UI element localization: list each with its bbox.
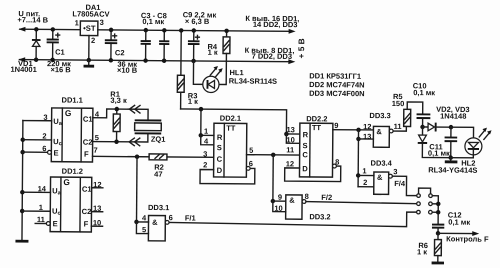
ground left bus — [15, 240, 28, 243]
label К выв. 8 DD1, 7 DD2, DD3 — [245, 46, 295, 61]
svg-text:10: 10 — [274, 204, 282, 213]
wire R4 to HL1 — [214, 53, 226, 84]
diode VD1 — [32, 27, 41, 62]
pin 6 DD1.1 — [23, 144, 52, 154]
resistor R1 — [113, 107, 120, 144]
ground under DA1 — [84, 60, 95, 66]
wire left bus — [20, 120, 25, 240]
svg-text:14 DD2, DD3: 14 DD2, DD3 — [253, 20, 298, 29]
pin 5 DD2.1 output — [247, 146, 300, 158]
svg-text:RL34-YG414S: RL34-YG414S — [428, 165, 477, 174]
ground under C11 — [445, 158, 458, 162]
wire DD2.2 Q down to DD3.4 — [356, 130, 361, 187]
label U пит. — [17, 9, 48, 24]
svg-text:6: 6 — [42, 144, 46, 153]
svg-text:+ 5 В: + 5 В — [296, 38, 306, 58]
svg-text:× 6,3 В: × 6,3 В — [185, 17, 210, 26]
svg-text:7: 7 — [93, 146, 97, 155]
svg-text:1: 1 — [204, 127, 208, 136]
svg-text:1: 1 — [75, 18, 79, 27]
svg-text:1N4148: 1N4148 — [440, 111, 466, 120]
pin 4 DD1.1 wire to R1 — [93, 109, 148, 121]
svg-text:11: 11 — [394, 122, 402, 131]
svg-text:S: S — [302, 141, 307, 150]
svg-text:10: 10 — [286, 135, 294, 144]
svg-text:6: 6 — [169, 213, 173, 222]
resistor R5 — [404, 102, 423, 127]
svg-text:DD2.2: DD2.2 — [306, 114, 327, 123]
svg-text:DD1.1: DD1.1 — [62, 96, 83, 105]
label R2 47 — [154, 163, 164, 179]
svg-text:D: D — [302, 164, 308, 173]
wire +5V rail — [98, 27, 296, 33]
svg-text:&: & — [377, 173, 383, 182]
svg-text:DD3 MC74F00N: DD3 MC74F00N — [309, 89, 365, 98]
label R6 1к — [417, 241, 428, 256]
pin 3 DD3.4 output F/4 — [392, 167, 417, 195]
flip-flop DD2.1 — [214, 123, 247, 177]
svg-text:F: F — [84, 150, 89, 159]
pin 3 DD1.1 — [23, 113, 52, 122]
node detector input — [420, 125, 425, 130]
svg-text:G: G — [63, 177, 70, 187]
svg-text:F: F — [84, 219, 89, 228]
chevron top — [129, 105, 140, 113]
svg-text:•ST: •ST — [83, 24, 96, 33]
chevron bottom — [129, 138, 140, 146]
svg-text:0,1 мк: 0,1 мк — [142, 17, 164, 26]
wire ground to HL1 — [193, 61, 207, 84]
pin 6 DD2.1 inverted output — [246, 159, 253, 170]
label C9 2,2мк — [183, 10, 217, 26]
svg-text:R: R — [303, 130, 309, 139]
label DA1 L7805ACV — [72, 3, 109, 19]
label R1 3,3к — [110, 90, 127, 105]
regulator DA1 — [80, 21, 98, 62]
capacitor C2 — [105, 28, 118, 63]
pin 11 DD3.3 output — [393, 122, 406, 131]
svg-text:5: 5 — [249, 146, 253, 155]
wire Контроль F output — [438, 231, 489, 244]
svg-text:3: 3 — [43, 113, 47, 122]
svg-text:RL34-SR114S: RL34-SR114S — [229, 76, 277, 85]
svg-text:8: 8 — [335, 158, 339, 167]
pin 4 DD3.1 — [137, 213, 149, 222]
wire pullup node — [180, 107, 286, 136]
svg-text:150: 150 — [392, 99, 405, 108]
pin 1 DD2.1 — [199, 127, 214, 138]
node C11 top — [449, 125, 454, 130]
gate DD3.4 — [374, 172, 393, 194]
svg-text:14: 14 — [38, 184, 47, 193]
svg-text:13: 13 — [93, 204, 101, 213]
resistor R4 — [223, 29, 230, 54]
switch SA1 contacts right — [429, 194, 433, 214]
svg-text:E: E — [53, 219, 58, 228]
svg-text:5: 5 — [142, 225, 146, 234]
label parts list DD1 DD2 DD3 — [309, 71, 365, 98]
svg-text:C2: C2 — [83, 138, 93, 147]
wire F to DD3.1 — [136, 157, 139, 222]
svg-text:DD3.3: DD3.3 — [369, 111, 390, 120]
svg-text:3: 3 — [393, 167, 397, 176]
svg-text:C1: C1 — [82, 185, 93, 194]
pin 8 DD2.2 inverted output — [333, 158, 340, 168]
svg-text:3: 3 — [203, 150, 207, 159]
label C3-C8 0,1мк — [141, 11, 167, 26]
svg-text:12: 12 — [363, 122, 371, 131]
label HL1 RL34-SR114S — [229, 68, 277, 86]
svg-text:×10 В: ×10 В — [117, 66, 138, 75]
capacitor C1 — [46, 27, 59, 62]
resistor R3 — [177, 28, 184, 109]
pin 1 DD1.2 — [22, 203, 50, 212]
svg-text:C2: C2 — [115, 48, 125, 57]
label К выв. 16 DD1, 14 DD2, DD3 — [245, 14, 299, 29]
resistor R6 — [434, 233, 441, 261]
pin 2 DD3.4 — [358, 178, 374, 187]
pin 10 DD3.2 — [273, 201, 286, 213]
pin 4 DD2.1 — [201, 135, 214, 145]
svg-text:12: 12 — [93, 180, 101, 189]
svg-text:2: 2 — [42, 132, 46, 141]
svg-text:10: 10 — [93, 218, 101, 227]
svg-text:ZQ1: ZQ1 — [151, 135, 166, 144]
svg-text:C1: C1 — [55, 48, 65, 57]
svg-text:1 к: 1 к — [417, 247, 427, 256]
svg-text:0,1 мк: 0,1 мк — [413, 88, 435, 97]
capacitor C3 — [140, 28, 150, 63]
svg-text:F/1: F/1 — [185, 213, 196, 222]
svg-text:5: 5 — [95, 133, 99, 142]
label VD2, VD3 1N4148 — [436, 105, 469, 121]
svg-text:TT: TT — [226, 124, 236, 133]
resistor R2 — [149, 154, 167, 160]
label C11 0,1мк — [428, 142, 450, 157]
svg-text:0,1 мк: 0,1 мк — [428, 149, 450, 158]
svg-text:F/2: F/2 — [321, 193, 332, 202]
pin 12 DD2.2 feedback loop — [285, 159, 341, 181]
multivibrator DD1.2 — [50, 177, 92, 232]
node контроль — [436, 231, 441, 236]
svg-text:C: C — [302, 150, 308, 159]
pin 12 DD1.2 — [92, 180, 103, 189]
svg-text:47: 47 — [154, 170, 162, 179]
wire ground rail — [18, 57, 295, 64]
svg-text:D: D — [217, 166, 223, 175]
svg-text:&: & — [289, 196, 295, 205]
capacitor C9 — [188, 28, 200, 63]
diode VD2 — [423, 123, 451, 132]
pin 6 DD3.1 output F/1 — [169, 210, 417, 227]
wire top input rail — [18, 27, 80, 32]
svg-text:G: G — [65, 108, 72, 118]
svg-text:13: 13 — [363, 132, 371, 141]
svg-text:1: 1 — [362, 166, 366, 175]
svg-text:7 DD2, DD3: 7 DD2, DD3 — [252, 52, 293, 61]
capacitor C10 — [416, 114, 430, 127]
svg-text:13: 13 — [286, 125, 294, 134]
switch SA1 bridge — [419, 188, 431, 194]
svg-text:DD3.1: DD3.1 — [148, 203, 169, 212]
pin 2 DD2.1 feedback loop — [200, 160, 255, 184]
svg-text:S: S — [217, 143, 222, 152]
svg-text:&: & — [152, 218, 158, 227]
node DD3.2 input — [271, 199, 276, 204]
diode VD3 — [418, 127, 451, 158]
flip-flop DD2.2 — [299, 123, 332, 177]
gate DD3.2 — [286, 195, 306, 219]
svg-text:6: 6 — [249, 159, 253, 168]
pin 13 DD3.3 — [358, 132, 373, 141]
svg-text:1 к: 1 к — [188, 97, 198, 106]
svg-text:8: 8 — [305, 192, 309, 201]
label R3 1к — [188, 91, 199, 106]
pin 13 DD2.2 — [284, 125, 300, 136]
svg-text:DD1.2: DD1.2 — [62, 167, 83, 176]
wire F node DD1.1 pin7 — [93, 146, 214, 160]
svg-text:2: 2 — [91, 36, 95, 45]
pin 9 DD3.2 — [273, 193, 286, 202]
label R4 1к — [207, 42, 218, 57]
capacitor C8 — [159, 28, 169, 63]
label C12 0,1мк — [448, 210, 471, 226]
svg-text:DD3.2: DD3.2 — [309, 212, 330, 221]
pin 14 DD1.2 — [22, 184, 50, 193]
pin 8 DD3.2 output F/2 — [305, 192, 417, 204]
svg-text:E: E — [54, 149, 59, 158]
pin 11 DD1.2 — [35, 215, 50, 226]
svg-text:DD2.1: DD2.1 — [220, 114, 241, 123]
pin 10 DD2.2 — [286, 134, 299, 145]
multivibrator DD1.1 — [51, 108, 93, 162]
svg-text:3: 3 — [100, 18, 104, 27]
svg-text:9: 9 — [278, 193, 282, 202]
label HL2 RL34-YG414S — [428, 158, 477, 174]
crystal ZQ1 — [135, 120, 162, 133]
wire DD2.1 Q to DD3.2 — [272, 155, 274, 201]
svg-text:12: 12 — [286, 159, 294, 168]
pin 13 DD1.2 — [91, 204, 102, 213]
svg-text:DD3.4: DD3.4 — [371, 159, 393, 168]
capacitor C12 — [432, 225, 444, 234]
pin 1 DD3.4 — [358, 166, 374, 175]
node detector ground — [448, 155, 453, 160]
svg-text:+7...14 В: +7...14 В — [17, 15, 48, 24]
svg-text:1: 1 — [39, 203, 43, 212]
label R5 150 — [392, 92, 405, 108]
svg-text:C1: C1 — [83, 115, 94, 124]
svg-text:F/4: F/4 — [394, 179, 406, 188]
svg-text:R: R — [217, 133, 223, 142]
label C10 0,1мк — [413, 81, 436, 97]
pin 10 DD1.2 — [91, 218, 102, 227]
svg-text:C2: C2 — [82, 207, 92, 216]
svg-text:Контроль F: Контроль F — [446, 234, 489, 243]
svg-text:C: C — [217, 155, 223, 164]
wire switch common — [432, 196, 440, 225]
ground under R6 — [432, 262, 444, 265]
capacitor C11 — [444, 127, 457, 158]
svg-text:0,1 мк: 0,1 мк — [448, 218, 470, 227]
LED HL1 — [203, 66, 223, 93]
svg-text:3,3 к: 3,3 к — [110, 96, 127, 105]
gate DD3.1 — [148, 216, 169, 241]
svg-text:L7805ACV: L7805ACV — [72, 9, 109, 18]
pin 9 DD2.2 output — [333, 121, 374, 132]
pin 2 DD1.1 — [23, 131, 52, 140]
svg-text:2: 2 — [363, 178, 367, 187]
svg-text:9: 9 — [334, 121, 338, 130]
svg-text:11: 11 — [286, 145, 294, 154]
svg-text:11: 11 — [37, 215, 45, 224]
svg-text:×16 В: ×16 В — [50, 65, 71, 74]
switch SA1 contacts left — [417, 194, 421, 214]
svg-text:TT: TT — [312, 123, 322, 132]
pin 5 DD1.1 wire to crystal — [93, 133, 148, 143]
svg-text:2: 2 — [203, 160, 207, 169]
svg-text:&: & — [376, 127, 382, 136]
label VD1 1N4001 — [10, 59, 36, 74]
label C1 220мк — [47, 48, 72, 75]
svg-text:1 к: 1 к — [208, 48, 218, 57]
gate DD3.3 — [373, 126, 393, 147]
pin 5 DD3.1 — [136, 222, 148, 234]
label C2 36мк — [115, 48, 138, 75]
node DD3.1 input — [134, 220, 139, 225]
LED HL2 — [451, 127, 492, 158]
svg-text:1N4001: 1N4001 — [10, 65, 36, 74]
